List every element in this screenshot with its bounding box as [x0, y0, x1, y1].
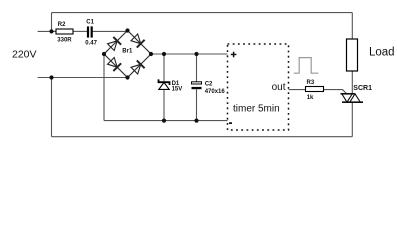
svg-text:Br1: Br1: [122, 48, 133, 54]
capacitor C1: [88, 26, 92, 37]
wire: R2 to C1: [73, 30, 87, 32]
wire: C1 to bridge top: [93, 30, 128, 32]
svg-text:R2: R2: [58, 22, 66, 28]
svg-text:1k: 1k: [307, 95, 314, 101]
bridge diode 1 (left to top): [108, 37, 122, 51]
wire: top rail: [52, 12, 353, 14]
node: D1 top: [162, 52, 166, 56]
svg-text:220V: 220V: [12, 48, 37, 60]
node: D1 bottom: [162, 119, 166, 123]
capacitor C2: [192, 82, 202, 84]
wire: D1 bottom lead: [163, 89, 165, 120]
zener diode D1: [159, 79, 170, 89]
wire: Load to SCR: [351, 71, 353, 94]
wire: lower AC drop: [51, 78, 53, 137]
bridge diode 2 (top to right): [131, 34, 145, 48]
wire: R3 to gate: [324, 90, 347, 94]
svg-text:330R: 330R: [57, 37, 72, 43]
svg-text:SCR1: SCR1: [353, 85, 372, 92]
wire: right drop to Load: [351, 13, 353, 39]
bridge Br1 edges: [104, 31, 151, 78]
wire: lower AC lead: [38, 77, 128, 79]
node: bridge right: [149, 52, 153, 56]
Load box: [347, 39, 358, 71]
wire: out to R3: [289, 89, 306, 91]
wire: negative rail: [104, 120, 228, 122]
svg-text:C2: C2: [205, 82, 213, 88]
node: C2 bottom: [194, 119, 198, 123]
wire: bottom rail: [52, 136, 353, 138]
svg-text:out: out: [272, 82, 286, 93]
resistor R3: [306, 87, 324, 92]
wire: negative drop from bridge left: [103, 54, 105, 121]
node: bridge top: [125, 28, 129, 32]
wire: positive rail: [151, 53, 228, 55]
wire: D1 top lead: [163, 54, 165, 81]
label -: [229, 122, 232, 124]
node: top junction: [49, 29, 53, 33]
bridge diode 4 (bottom to right): [131, 60, 145, 74]
node: bridge bottom: [125, 75, 129, 79]
wire: top AC lead-in: [38, 30, 56, 32]
svg-text:R3: R3: [307, 80, 315, 86]
bridge diode 3 (left to bottom): [108, 58, 122, 72]
svg-text:C1: C1: [86, 19, 94, 25]
svg-text:Load: Load: [369, 46, 395, 58]
node: C2 top: [194, 52, 198, 56]
label +: [231, 52, 237, 58]
svg-text:470x16: 470x16: [205, 89, 226, 95]
svg-text:15V: 15V: [172, 87, 183, 93]
wire: SCR to bottom rail: [351, 102, 353, 137]
triac SCR1: [341, 94, 364, 102]
wire: C2 bottom lead: [196, 89, 198, 120]
wire: junction riser: [51, 13, 53, 32]
wire: C2 top lead: [196, 54, 198, 82]
node: lower junction: [49, 75, 53, 79]
pulse symbol: [294, 58, 319, 74]
timer box (dashed): [228, 44, 289, 130]
resistor R2: [56, 29, 73, 34]
svg-text:0.47: 0.47: [85, 40, 97, 46]
node: bridge left: [102, 52, 106, 56]
svg-text:timer 5min: timer 5min: [233, 104, 280, 115]
